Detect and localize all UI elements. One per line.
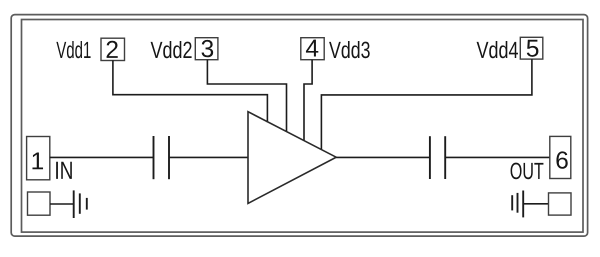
wire from pin 5 to amplifier top edge — [321, 59, 532, 150]
pin number 3 — [202, 40, 214, 57]
wire from pin 1 to capacitor C1 — [50, 156, 154, 158]
pin number 2 — [107, 41, 118, 58]
wire from left pad to ground — [50, 203, 74, 205]
wire from pin 4 to amplifier top edge — [304, 60, 312, 141]
pin box 4 — [301, 38, 324, 60]
wire from pin 3 to amplifier top edge — [207, 60, 286, 132]
wire from pin 2 to amplifier top edge — [113, 60, 268, 122]
op-amp U1 (amplifier triangle) — [248, 112, 336, 204]
wire from capacitor C2 to pin 6 — [445, 156, 550, 158]
label Vdd1 — [56, 41, 90, 58]
wire from amplifier output to capacitor C2 — [336, 156, 430, 158]
right ground pad box — [549, 193, 572, 215]
ground (right, sideways) — [512, 191, 523, 218]
pin number 6 — [556, 151, 567, 168]
pin number 1 — [32, 152, 43, 169]
pin box 1 — [27, 137, 50, 180]
label Vdd3 — [329, 41, 370, 58]
label OUT — [511, 163, 544, 180]
capacitor C1 (input DC block) — [154, 136, 170, 179]
wire from capacitor C1 to amplifier input — [169, 156, 248, 158]
pin box 6 — [550, 136, 571, 178]
label IN — [56, 162, 72, 179]
pin box 5 — [520, 37, 543, 59]
label Vdd4 — [477, 41, 518, 58]
wire from right ground to right pad — [523, 203, 548, 205]
left ground pad box — [28, 192, 51, 215]
pin box 3 — [195, 38, 218, 60]
pin number 4 — [306, 40, 318, 57]
pin box 2 — [101, 38, 125, 60]
inner border frame — [22, 20, 584, 233]
capacitor C2 (output DC block) — [430, 136, 445, 179]
pin number 5 — [527, 40, 539, 57]
label Vdd2 — [151, 41, 192, 58]
ground (left, sideways) — [74, 190, 87, 218]
